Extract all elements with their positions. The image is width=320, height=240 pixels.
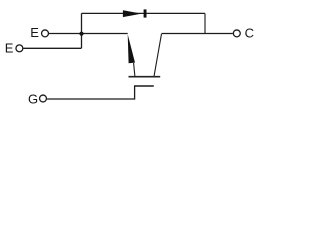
- svg-text:E: E: [30, 25, 39, 40]
- transistor Q1 collector lead: [154, 34, 162, 77]
- transistor Q1 body bar: [129, 76, 161, 78]
- diode D1 cathode bar: [144, 9, 147, 17]
- transistor Q1 gate bar: [134, 85, 154, 87]
- svg-text:E: E: [5, 40, 14, 55]
- terminal G circle: [40, 95, 47, 102]
- wire right vertical: [204, 13, 206, 33]
- svg-text:C: C: [245, 25, 254, 40]
- wire E2: [23, 47, 81, 49]
- terminal E2 circle: [16, 45, 23, 52]
- node junction dot: [79, 32, 83, 36]
- wire left vertical: [81, 13, 83, 48]
- terminal C circle: [233, 30, 240, 37]
- diode D1 anode triangle: [123, 10, 142, 17]
- wire top: [82, 12, 206, 14]
- wire E1 to emitter: [49, 33, 128, 35]
- svg-text:G: G: [28, 91, 38, 106]
- wire collector to C: [162, 33, 233, 35]
- terminal E1 circle: [42, 30, 49, 37]
- transistor Q1 emitter arrow: [128, 34, 135, 63]
- transistor Q1 emitter lead: [134, 63, 135, 76]
- wire gate lead: [47, 86, 135, 99]
